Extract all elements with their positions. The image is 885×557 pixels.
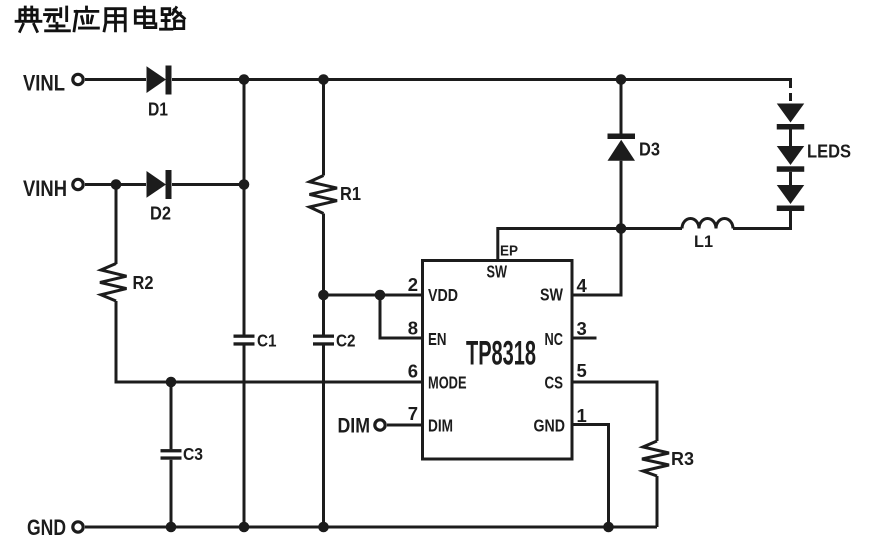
svg-text:D2: D2 (150, 204, 171, 224)
node top R1 column (318, 74, 329, 85)
node top D3 column (616, 74, 627, 85)
wire NC stub pin 3 (572, 337, 597, 340)
diode D2 (147, 171, 167, 198)
svg-text:8: 8 (408, 318, 418, 339)
svg-text:L1: L1 (694, 232, 713, 251)
svg-text:VINH: VINH (23, 176, 67, 201)
svg-text:MODE: MODE (428, 373, 467, 393)
port circle GND (73, 522, 83, 532)
wire C2 column lower (322, 346, 325, 528)
svg-text:C2: C2 (336, 331, 356, 351)
resistor R3 (642, 441, 669, 476)
svg-text:SW: SW (487, 262, 508, 282)
svg-text:1: 1 (577, 405, 587, 426)
svg-text:TP8318: TP8318 (466, 335, 536, 373)
port circle DIM (375, 420, 385, 430)
wire R1 column upper (322, 80, 325, 176)
node SW at D3 (616, 223, 627, 234)
wire C3 branch lower (170, 460, 173, 527)
wire LED1 to LED2 (789, 130, 792, 147)
node GND C2 (318, 522, 329, 533)
wire EP to SW node (498, 229, 682, 261)
svg-text:5: 5 (577, 360, 587, 381)
wire EN branch (380, 295, 423, 338)
char 电 (135, 7, 156, 27)
LED LED2 (777, 146, 805, 165)
LED LED3 (777, 185, 805, 204)
resistor R2 (100, 264, 127, 302)
svg-text:R1: R1 (340, 184, 361, 204)
IC U1 TP8318 body (423, 261, 573, 460)
port circle VINL (73, 74, 83, 84)
svg-text:R2: R2 (133, 273, 154, 293)
node GND C3 (166, 522, 177, 533)
wire pin 1 GND to GND net (572, 425, 609, 528)
svg-text:LEDS: LEDS (807, 142, 851, 162)
svg-text:EN: EN (428, 329, 447, 349)
wire VINL to D1 (85, 78, 146, 81)
capacitor C1 (234, 335, 255, 338)
wire D2 to C1 column (172, 183, 244, 186)
svg-text:GND: GND (27, 515, 66, 540)
port circle VINH (73, 179, 83, 189)
svg-text:6: 6 (408, 361, 418, 382)
wire L1 to LED chain (733, 211, 791, 229)
char 典 (16, 7, 41, 31)
capacitor C2 (313, 335, 334, 338)
capacitor C3 (161, 449, 182, 452)
wire C1 column upper (243, 80, 246, 335)
wire C1 column lower (243, 346, 246, 528)
svg-text:R3: R3 (671, 449, 694, 469)
svg-text:DIM: DIM (428, 416, 453, 436)
wire GND net (85, 526, 657, 529)
node VDD at C2 column (318, 290, 329, 301)
wire VDD net (324, 294, 423, 297)
diode D3 (608, 134, 636, 140)
svg-text:DIM: DIM (338, 415, 371, 438)
LED chain dash (789, 93, 792, 101)
wire D3 to SW node and pin 4 (572, 161, 621, 295)
wire D3 column top (620, 80, 623, 134)
char 路 (161, 8, 185, 30)
svg-text:2: 2 (408, 274, 418, 295)
wire C3 branch upper (170, 382, 173, 449)
title 典型应用电路 (16, 7, 184, 31)
wire CS to R3 (572, 382, 657, 441)
char 应 (74, 7, 98, 31)
LED LED1 (777, 104, 805, 123)
node top C1 column (239, 74, 250, 85)
wire R3 to GND net (656, 476, 659, 527)
wire VINH to D2 (85, 183, 146, 186)
svg-text:NC: NC (545, 329, 564, 349)
node MODE C3 branch (166, 377, 177, 388)
node GND pin1 (603, 522, 614, 533)
node VINH R2 branch (111, 179, 122, 190)
svg-text:C1: C1 (257, 331, 277, 351)
wire DIM to pin 7 (387, 424, 423, 427)
node GND C1 (239, 522, 250, 533)
svg-text:EP: EP (500, 243, 518, 260)
wire LED2 to LED3 (789, 172, 792, 185)
inductor L1 (682, 219, 733, 229)
svg-text:CS: CS (545, 373, 564, 393)
node VDD EN branch (375, 290, 386, 301)
svg-text:VDD: VDD (428, 285, 458, 305)
wire R1 to C2 (322, 214, 325, 335)
node D2 C1 column (239, 179, 250, 190)
wire R2 to MODE pin (116, 301, 423, 382)
wire top net D1 to LED corner (172, 80, 791, 89)
svg-text:C3: C3 (183, 444, 203, 464)
svg-text:D3: D3 (639, 140, 660, 160)
svg-text:7: 7 (408, 403, 418, 424)
resistor R1 (310, 176, 338, 214)
diode D1 (147, 66, 167, 93)
svg-text:VINL: VINL (23, 71, 65, 96)
wire R2 column upper (115, 185, 118, 265)
char 用 (104, 9, 125, 31)
svg-text:3: 3 (577, 318, 587, 339)
svg-text:4: 4 (577, 275, 588, 296)
svg-text:D1: D1 (148, 100, 168, 120)
svg-text:SW: SW (540, 285, 563, 305)
char 型 (45, 7, 70, 31)
svg-text:GND: GND (534, 416, 566, 436)
